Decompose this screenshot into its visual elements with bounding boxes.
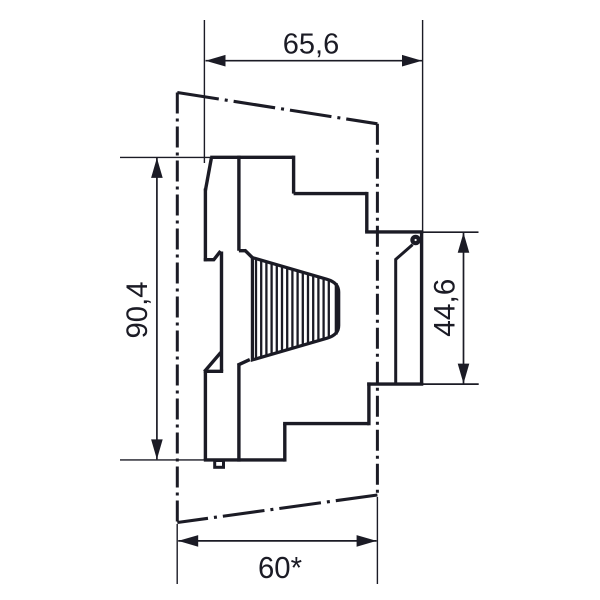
dimension 90,4: bottom extension line xyxy=(120,459,206,461)
device outline: lower right vertical xyxy=(367,382,370,425)
DIN clip right edge xyxy=(420,232,423,384)
dimension 60*: dimension line xyxy=(178,540,376,542)
dimension 90,4: dimension line xyxy=(156,158,158,460)
device outline: bottom step horizontal xyxy=(283,422,369,425)
device outline: top edge xyxy=(210,156,293,159)
dimension 65,6: left extension line xyxy=(203,20,205,163)
dimension 60*: left arrow xyxy=(178,535,198,547)
device outline: top-left bevel xyxy=(205,157,211,190)
device outline: upper left edge xyxy=(204,189,207,262)
dimension 60*: right extension line xyxy=(376,497,378,584)
dimension 44,6: bottom arrow xyxy=(458,364,470,384)
dimension 65,6: right arrow xyxy=(402,55,422,67)
svg-text:90,4: 90,4 xyxy=(121,282,154,339)
ribbed trapezoid right bar thickening xyxy=(335,283,338,335)
device outline: inner left edge (cover lip) xyxy=(220,252,223,372)
dimension 90,4: top arrow xyxy=(151,158,163,178)
ribs xyxy=(256,259,329,359)
dimension 44,6: top arrow xyxy=(458,233,470,253)
body front inner edge upper xyxy=(237,156,240,251)
DIN clip pivot circle xyxy=(412,237,418,243)
device outline: rail recess bottom edge xyxy=(367,382,423,385)
device outline: upper right vertical xyxy=(365,192,368,232)
dimension 44,6: bottom extension line xyxy=(423,383,479,385)
svg-text:44,6: 44,6 xyxy=(429,279,462,337)
DIN clip left edge xyxy=(394,259,397,385)
dimension 65,6: dimension line xyxy=(206,60,423,62)
device outline: rail recess top edge xyxy=(365,230,423,233)
device outline: upper-left chamfer xyxy=(213,251,220,261)
panel cutout centerline right vertical (dash-dot) xyxy=(376,124,379,495)
svg-text:60*: 60* xyxy=(258,550,302,585)
device outline: top step vertical xyxy=(292,156,295,194)
dimension 90,4: top extension line xyxy=(120,156,211,158)
dimension 90,4: bottom arrow xyxy=(151,439,163,459)
dimension 44,6: top extension line xyxy=(423,231,479,233)
device outline: lower-left shelf xyxy=(204,370,223,373)
panel cutout centerline left vertical (dash-dot) xyxy=(176,93,179,523)
dimension 65,6: left arrow xyxy=(206,55,226,67)
device outline: bottom edge xyxy=(204,458,285,461)
device outline: lower-left diagonal xyxy=(204,352,221,371)
device outline: upper-left step xyxy=(204,258,214,261)
device outline: lower left edge xyxy=(204,371,207,460)
sealing tab at bottom xyxy=(215,461,224,468)
dimension 44,6: dimension line xyxy=(463,233,465,384)
device outline: top step horizontal xyxy=(294,192,367,195)
dimension 65,6: right extension line xyxy=(422,20,424,232)
svg-text:65,6: 65,6 xyxy=(283,29,339,61)
dimension 60*: right arrow xyxy=(357,535,377,547)
body front inner edge lower xyxy=(237,364,240,462)
panel cutout centerline bottom slant (dash-dot) xyxy=(177,495,377,523)
panel cutout centerline top slant (dash-dot) xyxy=(177,93,377,124)
body lip horizontal xyxy=(239,249,246,252)
body lip chamfer xyxy=(245,250,254,259)
dimension 60*: left extension line xyxy=(176,524,178,584)
body lower chamfer to ribs xyxy=(238,360,250,366)
device outline: bottom step vertical xyxy=(283,424,286,462)
ribbed trapezoid outline xyxy=(252,258,338,360)
DIN clip spring diagonal xyxy=(395,245,412,260)
